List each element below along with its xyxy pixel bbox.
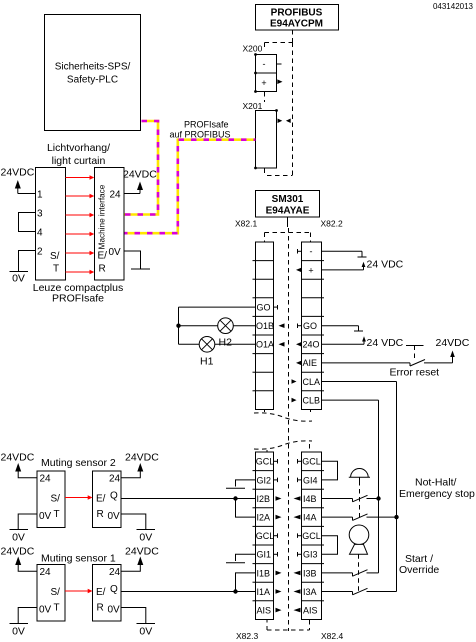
muting sensor 2 receiver box	[93, 471, 122, 528]
svg-text:0V: 0V	[12, 532, 25, 544]
svg-text:0V: 0V	[108, 511, 121, 522]
ground right of interface	[124, 251, 150, 269]
svg-text:Emergency stop: Emergency stop	[399, 488, 475, 500]
contact I4B	[322, 495, 379, 502]
svg-text:S/: S/	[51, 587, 61, 598]
X200 minus stub	[277, 63, 282, 65]
svg-text:CLB: CLB	[303, 395, 321, 405]
contact I3A	[322, 588, 397, 595]
SM301 module box	[256, 191, 320, 218]
svg-text:R: R	[99, 264, 106, 275]
svg-text:AIS: AIS	[303, 606, 318, 616]
arrow CLB	[292, 398, 297, 403]
svg-text:GCL: GCL	[302, 531, 321, 541]
svg-text:0V: 0V	[39, 605, 52, 616]
wire AIE row with error reset switch	[322, 356, 453, 366]
junction I4A / CLA	[394, 515, 398, 519]
arrow CLA	[292, 379, 297, 384]
svg-text:24VDC: 24VDC	[1, 546, 35, 558]
dashed enclosure SM301 terminals	[265, 233, 311, 413]
muting sensor 1 supply left	[1, 546, 38, 572]
svg-text:24: 24	[40, 567, 52, 578]
svg-text:Q: Q	[110, 584, 118, 595]
svg-text:S/: S/	[51, 494, 61, 505]
svg-text:X82.1: X82.1	[235, 219, 257, 229]
svg-text:Safety-PLC: Safety-PLC	[67, 75, 118, 86]
safety PLC box	[45, 15, 141, 131]
muting sensor 1 red arrow	[65, 589, 93, 594]
error reset actuator	[390, 346, 440, 379]
svg-text:T: T	[53, 264, 59, 275]
svg-text:auf PROFIBUS: auf PROFIBUS	[169, 130, 230, 140]
svg-text:H2: H2	[219, 337, 233, 349]
X82.4 outer pin ticks	[322, 471, 325, 601]
machine interface box	[95, 168, 125, 281]
connector X200	[254, 53, 276, 93]
svg-text:24VDC: 24VDC	[125, 452, 159, 464]
svg-text:GCL: GCL	[256, 531, 275, 541]
24VDC supply right of interface	[123, 169, 157, 194]
svg-text:0V: 0V	[12, 273, 25, 285]
X82.2 outer pin ticks	[322, 261, 325, 391]
svg-text:GCL: GCL	[302, 457, 321, 467]
svg-text:24: 24	[109, 474, 121, 485]
svg-text:GI2: GI2	[257, 475, 272, 485]
svg-text:-: -	[310, 247, 313, 257]
svg-text:0V: 0V	[12, 626, 25, 638]
wire sensor1 Q to I1A	[121, 591, 255, 593]
dashed enclosure X200/X201	[265, 43, 293, 176]
svg-text:0V: 0V	[39, 511, 52, 522]
svg-text:GO: GO	[257, 303, 271, 313]
svg-text:T: T	[54, 603, 60, 614]
connector X201	[254, 109, 278, 169]
svg-text:I4A: I4A	[303, 513, 317, 523]
wire minus row to supply stub	[322, 251, 367, 257]
muting sensor 1 ground right	[121, 608, 155, 638]
X82.1 outer pin ticks	[253, 261, 256, 391]
wire branch to I2A	[236, 499, 256, 518]
PROFIsafe cable light curtain to X201	[122, 140, 256, 234]
start button actuator	[349, 525, 369, 592]
svg-text:I1A: I1A	[257, 587, 271, 597]
X82.3 outer pin ticks	[253, 471, 256, 601]
svg-text:I1B: I1B	[257, 568, 271, 578]
wire CLA row going down	[322, 382, 397, 592]
X82.4 bridge ticks GCL/GI rows	[298, 459, 302, 557]
X82.2 GO bridge tick	[298, 324, 302, 329]
svg-text:T: T	[54, 509, 60, 520]
PROFIsafe cable PLC to light curtain	[122, 121, 158, 215]
wire plus row 24VDC	[322, 259, 404, 271]
svg-text:CLA: CLA	[303, 377, 321, 387]
break marks between terminal blocks	[254, 413, 312, 449]
lamp H2	[218, 318, 234, 349]
junction I4B / CLB	[376, 496, 380, 500]
muting sensor 2 ground right	[121, 514, 155, 544]
central dashed bus line	[288, 228, 290, 631]
svg-text:24 VDC: 24 VDC	[367, 337, 404, 349]
muting sensor 2 supply left	[1, 452, 38, 478]
svg-text:24: 24	[40, 474, 52, 485]
svg-text:E/: E/	[96, 587, 106, 598]
X82.3 bridge ticks GCL/GI rows	[274, 459, 278, 557]
svg-text:24VDC: 24VDC	[436, 337, 470, 349]
muting sensor 1 receiver box	[93, 565, 122, 622]
terminal strip X82.4	[302, 452, 322, 620]
muting sensor 2 emitter box	[37, 471, 65, 528]
svg-text:O1B: O1B	[256, 321, 274, 331]
wire GO row to supply stub	[322, 326, 364, 331]
svg-text:1: 1	[37, 190, 43, 201]
muting sensor 1 emitter box	[37, 565, 65, 622]
svg-text:2: 2	[37, 247, 43, 258]
arrow 24O	[296, 342, 302, 347]
svg-text:GO: GO	[303, 321, 317, 331]
svg-text:I4B: I4B	[303, 494, 317, 504]
GI2 enable contact	[226, 480, 255, 488]
svg-text:GI4: GI4	[303, 475, 318, 485]
wire 24O row 24VDC	[322, 336, 404, 349]
svg-text:Lichtvorhang/: Lichtvorhang/	[47, 142, 110, 154]
svg-text:24O: 24O	[303, 340, 320, 350]
muting sensor 2 ground left	[10, 514, 38, 544]
terminal strip X82.1	[255, 242, 274, 410]
svg-text:I2B: I2B	[257, 494, 271, 504]
svg-text:24: 24	[110, 190, 122, 201]
svg-text:X82.2: X82.2	[321, 219, 343, 229]
svg-text:24VDC: 24VDC	[1, 167, 35, 179]
svg-text:E/: E/	[98, 251, 108, 262]
svg-text:PROFIsafe: PROFIsafe	[184, 120, 229, 130]
svg-text:3: 3	[37, 209, 43, 220]
red signal arrows light curtain to interface	[66, 178, 91, 273]
X200 plus arrow	[277, 79, 282, 84]
GI1 enable contact	[226, 554, 255, 563]
lamp H1	[199, 337, 215, 368]
svg-text:PROFIBUS: PROFIBUS	[271, 8, 323, 19]
svg-text:R: R	[97, 509, 104, 520]
svg-text:Sicherheits-SPS/: Sicherheits-SPS/	[55, 62, 131, 73]
svg-text:043142013: 043142013	[433, 2, 474, 11]
jumper pins 3-4	[19, 213, 36, 232]
24VDC arrow error reset	[436, 337, 470, 357]
svg-text:S/: S/	[50, 251, 60, 262]
muting sensor 2 supply right	[121, 452, 159, 478]
dashed enclosure lower terminals	[267, 444, 310, 630]
svg-text:Muting sensor 2: Muting sensor 2	[41, 457, 116, 469]
svg-text:I3A: I3A	[303, 587, 317, 597]
svg-text:0V: 0V	[139, 532, 152, 544]
svg-text:O1A: O1A	[256, 340, 274, 350]
X82.2 minus bridge tick	[298, 249, 302, 254]
svg-text:0V: 0V	[109, 247, 122, 258]
svg-text:E/: E/	[96, 494, 106, 505]
junction I1A	[233, 589, 237, 593]
wire stub below SM301	[287, 217, 289, 227]
svg-text:light curtain: light curtain	[52, 155, 106, 167]
svg-text:0V: 0V	[108, 605, 121, 616]
wire dashed drop from PROFIBUS box	[292, 30, 294, 43]
svg-text:H1: H1	[200, 356, 214, 368]
svg-text:Error reset: Error reset	[390, 367, 440, 379]
svg-text:24 VDC: 24 VDC	[367, 259, 404, 271]
svg-text:+: +	[261, 78, 266, 88]
svg-text:GI1: GI1	[257, 550, 272, 560]
svg-text:24VDC: 24VDC	[123, 169, 157, 181]
svg-text:AIS: AIS	[257, 606, 272, 616]
light curtain transmitter box	[36, 168, 66, 281]
arrow O1A	[279, 342, 285, 347]
svg-text:Not-Halt/: Not-Halt/	[415, 477, 457, 489]
svg-text:I2A: I2A	[257, 513, 271, 523]
PROFIBUS module box	[256, 5, 339, 31]
svg-text:R: R	[97, 603, 104, 614]
svg-text:E94AYCPM: E94AYCPM	[270, 19, 323, 30]
muting sensor 2 red arrow	[65, 495, 93, 500]
wire GCL to GI4 loop	[322, 461, 338, 480]
svg-text:Muting sensor 1: Muting sensor 1	[41, 553, 116, 565]
svg-text:X82.3: X82.3	[236, 631, 258, 641]
wire GCL to GI3 loop	[322, 536, 338, 555]
arrow plus	[296, 268, 302, 273]
svg-text:4: 4	[37, 228, 43, 239]
X82.3 input arrows	[276, 496, 282, 612]
svg-text:SM301: SM301	[272, 194, 304, 205]
svg-text:+: +	[308, 266, 313, 276]
terminal strip X82.2	[302, 242, 322, 410]
junction I2B	[233, 496, 237, 500]
svg-text:24VDC: 24VDC	[1, 452, 35, 464]
svg-text:Machine interface: Machine interface	[98, 184, 107, 249]
ground pin 2	[10, 251, 36, 285]
contact I3B	[322, 570, 379, 577]
muting sensor 1 supply right	[121, 546, 159, 572]
svg-text:PROFIsafe: PROFIsafe	[52, 293, 104, 305]
svg-text:GI3: GI3	[303, 550, 318, 560]
arrow O1B	[279, 323, 285, 328]
lamp circuit wires GO/O1B/O1A	[176, 307, 255, 344]
wire sensor2 Q to I2B	[121, 498, 255, 500]
svg-text:X82.4: X82.4	[321, 631, 343, 641]
terminal strip X82.3	[255, 452, 274, 620]
svg-text:0V: 0V	[139, 626, 152, 638]
X82.1 GO bridge tick	[274, 305, 278, 310]
muting sensor 1 ground left	[10, 608, 38, 638]
svg-text:24: 24	[109, 567, 121, 578]
contact I4A	[322, 514, 397, 521]
X201 arrows	[278, 119, 283, 124]
arrow AIE	[296, 361, 302, 366]
svg-text:I3B: I3B	[303, 568, 317, 578]
wire CLB row going down	[322, 400, 379, 573]
X82.4 input arrows	[294, 496, 301, 612]
svg-text:X201: X201	[243, 101, 263, 111]
emergency stop actuator	[349, 469, 370, 518]
svg-text:Override: Override	[399, 564, 439, 576]
svg-text:AIE: AIE	[303, 358, 318, 368]
svg-text:Q: Q	[110, 491, 118, 502]
svg-text:E94AYAE: E94AYAE	[266, 206, 310, 217]
svg-text:24VDC: 24VDC	[125, 546, 159, 558]
svg-text:X200: X200	[243, 44, 263, 54]
wire branch to I1B	[236, 573, 256, 592]
svg-text:GCL: GCL	[256, 457, 275, 467]
svg-text:-: -	[263, 59, 266, 69]
24VDC supply left of light curtain	[1, 167, 36, 194]
